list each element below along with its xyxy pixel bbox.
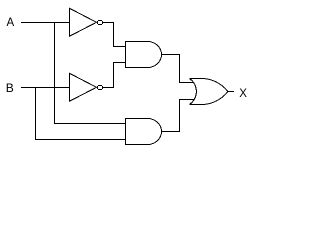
svg-text:A: A bbox=[7, 17, 15, 29]
svg-text:B: B bbox=[6, 81, 14, 95]
svg-text:X: X bbox=[239, 86, 247, 100]
